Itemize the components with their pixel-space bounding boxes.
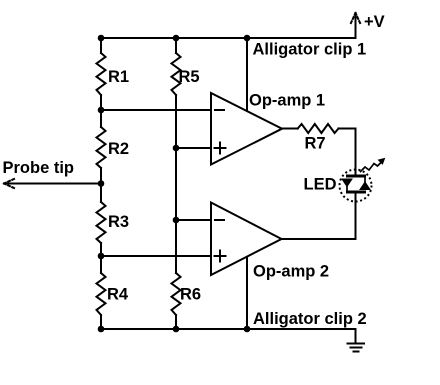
- LED D1 circle: [340, 170, 372, 202]
- wire op-amp1 output: [282, 128, 298, 130]
- wire LED bottom: [355, 192, 357, 239]
- wire op-amp2 inverting input: [176, 219, 211, 221]
- node dot bottom rail / op-amp2 supply: [244, 326, 251, 333]
- wire op-amp2 non-inverting input: [101, 255, 211, 257]
- wire middle column top: [175, 38, 177, 53]
- resistor R6: [172, 273, 181, 315]
- op-amp U1 minus sign: [215, 109, 224, 111]
- wire left column top: [100, 38, 102, 53]
- node dot top rail / op-amp1 supply: [244, 35, 251, 42]
- svg-text:R4: R4: [107, 286, 129, 304]
- node dot R3/R4 junction: [98, 253, 105, 260]
- svg-text:Op-amp 2: Op-amp 2: [253, 263, 329, 281]
- node dot top rail / R5: [173, 35, 180, 42]
- LED bottom bar: [348, 191, 365, 194]
- op-amp U2 plus sign: [215, 255, 226, 257]
- wire R3-R4: [100, 243, 102, 273]
- svg-text:R1: R1: [108, 68, 129, 86]
- probe tip arrowhead: [4, 179, 14, 188]
- resistor R4: [97, 273, 106, 315]
- LED left diode triangle: [342, 179, 352, 187]
- node dot top rail / R1: [98, 35, 105, 42]
- svg-text:+V: +V: [364, 13, 385, 31]
- resistor R2: [97, 127, 106, 168]
- svg-text:R3: R3: [108, 213, 129, 231]
- node dot bottom rail / R6: [173, 326, 180, 333]
- op-amp U2: [211, 203, 282, 276]
- LED top bar: [348, 175, 365, 178]
- wire +V riser: [355, 15, 357, 38]
- wire R7 to LED column: [339, 128, 356, 130]
- LED emission arrow: [361, 163, 381, 172]
- wire R2-R3: [100, 168, 102, 202]
- svg-text:LED: LED: [304, 176, 337, 194]
- svg-text:Op-amp 1: Op-amp 1: [249, 91, 325, 109]
- +V arrowhead: [350, 13, 361, 25]
- wire ground drop: [355, 329, 357, 344]
- node dot probe tip junction: [98, 180, 105, 187]
- wire bottom rail: [101, 328, 356, 330]
- op-amp U1: [211, 93, 282, 165]
- resistor R3: [97, 202, 106, 243]
- wire op-amp1 inverting input: [101, 109, 211, 111]
- wire op-amp1 non-inverting input: [176, 147, 211, 149]
- wire R1-R2: [100, 95, 102, 127]
- node dot R1/R2 junction: [98, 107, 105, 114]
- svg-text:R2: R2: [108, 140, 129, 158]
- ground: [348, 343, 365, 345]
- wire top rail: [101, 37, 356, 39]
- resistor R7: [298, 124, 339, 133]
- LED right diode triangle: [360, 182, 370, 190]
- svg-text:R6: R6: [180, 286, 201, 304]
- wire op-amp2 supply: [246, 258, 248, 330]
- svg-text:R5: R5: [179, 68, 200, 86]
- wire R4-bottom: [100, 315, 102, 329]
- wire R6-bottom: [175, 315, 177, 329]
- resistor R5: [172, 53, 181, 95]
- wire op-amp2 output: [282, 238, 356, 240]
- wire op-amp1 supply: [246, 38, 248, 111]
- wire R5 to R6: [175, 95, 177, 273]
- svg-text:Probe tip: Probe tip: [3, 159, 75, 177]
- wire probe tip: [5, 183, 101, 185]
- node dot R5/R6 tap op-amp2: [173, 217, 180, 224]
- wire LED column top: [355, 129, 357, 177]
- svg-text:R7: R7: [305, 135, 326, 153]
- resistor R1: [97, 53, 106, 95]
- op-amp U1 plus sign: [215, 147, 226, 149]
- node dot bottom rail / R4: [98, 326, 105, 333]
- svg-text:Alligator clip 2: Alligator clip 2: [253, 310, 367, 328]
- node dot R5/R6 tap op-amp1: [173, 145, 180, 152]
- svg-text:Alligator clip 1: Alligator clip 1: [253, 41, 367, 59]
- op-amp U2 minus sign: [215, 219, 224, 221]
